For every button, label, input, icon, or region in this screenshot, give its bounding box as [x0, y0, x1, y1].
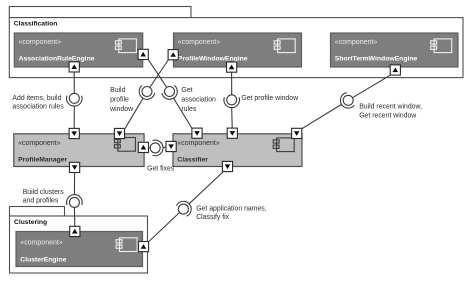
interface Build recent window / Get recent window socket [340, 93, 354, 108]
interface Get application names / Classify fix ball [178, 204, 188, 214]
wire ProfileWindowEngine left port to Build-profile-window ball [150, 60, 168, 87]
wire ProfileWindowEngine bottom port to Get-profile-window ball [231, 72, 233, 94]
svg-text:Classification: Classification [14, 20, 57, 27]
component ProfileWindowEngine icon [274, 39, 295, 53]
svg-text:window: window [109, 106, 133, 113]
svg-text:ProfileWindowEngine: ProfileWindowEngine [178, 56, 248, 63]
wire ProfileManager right port to Get-fixes ball [148, 147, 150, 149]
interface Get fixes socket [153, 140, 163, 156]
component Classifier icon [273, 138, 294, 152]
wire AssociationRuleEngine right port to Get-association-rules ball [148, 60, 166, 88]
component ProfileManager icon [114, 138, 135, 152]
svg-text:Get application names,: Get application names, [196, 205, 267, 212]
component ProfileWindowEngine stereotype label [178, 39, 221, 46]
component AssociationRuleEngine box [14, 33, 142, 67]
interface Get association rules socket [162, 85, 177, 99]
svg-text:Clustering: Clustering [14, 219, 47, 226]
port ShortTermWindowEngine bottom [390, 65, 400, 75]
svg-text:rules: rules [181, 106, 196, 113]
wire Get-association-rules socket to Classifier port [174, 98, 192, 128]
component ClusterEngine icon [116, 238, 137, 252]
interface Build recent window / Get recent window ball [343, 95, 353, 105]
svg-text:ClusterEngine: ClusterEngine [20, 257, 66, 264]
svg-text:«component»: «component» [335, 39, 378, 46]
svg-text:Build: Build [110, 87, 125, 94]
component Classifier box [173, 134, 302, 167]
interface Get fixes ball [150, 143, 160, 153]
package Classification body [9, 18, 463, 78]
interface Get application names / Classify fix socket [176, 201, 191, 216]
label Build profile window [109, 87, 133, 113]
port ClusterEngine right [138, 242, 148, 252]
svg-text:association rules: association rules [12, 104, 64, 111]
component ProfileManager name label [18, 156, 67, 163]
wire Build-profile-window socket to ProfileManager port [125, 98, 143, 128]
interface Build profile window ball [142, 87, 152, 97]
svg-text:AssociationRuleEngine: AssociationRuleEngine [19, 56, 95, 63]
label Build recent window Get recent window [359, 104, 422, 120]
port ProfileManager bottom [70, 162, 80, 172]
port ProfileWindowEngine left [168, 50, 178, 60]
svg-text:Add items, build: Add items, build [12, 95, 61, 102]
label Add items build association rules [12, 95, 64, 111]
component ClusterEngine box [16, 232, 143, 267]
svg-text:«component»: «component» [19, 39, 62, 46]
component ProfileManager box [14, 134, 144, 167]
label Build clusters and profiles [23, 189, 65, 205]
component AssociationRuleEngine icon [115, 39, 136, 53]
svg-text:Build recent window,: Build recent window, [359, 104, 422, 111]
svg-text:association: association [181, 97, 216, 104]
svg-text:Get profile window: Get profile window [241, 95, 298, 102]
port AssociationRuleEngine right [138, 49, 148, 59]
wire Classifier bottom port to Get-application-names socket [189, 172, 223, 204]
svg-text:«component»: «component» [18, 140, 61, 147]
package Clustering body [10, 216, 148, 273]
svg-text:Classify fix: Classify fix [196, 214, 229, 221]
component ProfileWindowEngine name label [178, 56, 248, 63]
component ShortTermWindowEngine icon [431, 39, 452, 53]
svg-text:Get fixes: Get fixes [147, 166, 175, 173]
interface Add items / build association rules socket [67, 96, 83, 106]
package Clustering tab [10, 207, 65, 217]
component ProfileWindowEngine box [174, 33, 302, 67]
port ProfileWindowEngine bottom [227, 62, 237, 72]
interface Get profile window socket [224, 97, 240, 107]
svg-text:Classifier: Classifier [177, 156, 208, 163]
interface Add items / build association rules ball [69, 93, 79, 103]
package Classification tab [9, 7, 191, 18]
label Get profile window [241, 95, 298, 102]
port Classifier left [166, 141, 176, 151]
wire Build-recent-window socket to Classifier corner port [302, 104, 342, 128]
component ClusterEngine stereotype label [20, 240, 63, 247]
port ProfileManager top-left [69, 128, 79, 138]
wire Build-clusters ball to ClusterEngine port [73, 207, 75, 226]
wire Get-fixes socket to Classifier left port [163, 147, 166, 148]
svg-text:Get recent window: Get recent window [359, 112, 416, 119]
wire ShortTermWindowEngine port to Build-recent-window ball [353, 75, 391, 98]
port Classifier top-left [192, 128, 202, 138]
component Classifier name label [177, 156, 208, 163]
label Get association rules [181, 87, 216, 113]
port Classifier top-right [292, 128, 302, 138]
label Get fixes [147, 166, 175, 173]
label Get application names Classify fix [196, 205, 267, 221]
interface Build clusters and profiles ball [69, 197, 79, 207]
component AssociationRuleEngine stereotype label [19, 39, 62, 46]
component AssociationRuleEngine name label [19, 56, 95, 63]
port ClusterEngine top [70, 226, 80, 236]
svg-text:ShortTermWindowEngine: ShortTermWindowEngine [335, 56, 418, 63]
interface Build profile window socket [139, 85, 154, 99]
port ProfileManager top-mid [114, 128, 124, 138]
svg-text:and profiles: and profiles [23, 198, 59, 205]
wire ProfileManager bottom port to Build-clusters socket [73, 173, 75, 195]
svg-text:Get: Get [181, 87, 192, 94]
wire Get-application-names ball to ClusterEngine right port [149, 212, 180, 241]
svg-text:Build clusters: Build clusters [23, 189, 65, 196]
port ProfileManager right [138, 142, 148, 152]
svg-text:profile: profile [110, 97, 129, 104]
wire AssociationRuleEngine port to Add-items interface [73, 72, 75, 93]
svg-text:«component»: «component» [20, 240, 63, 247]
svg-text:«component»: «component» [178, 39, 221, 46]
wire Get-profile-window socket to Classifier port [231, 108, 234, 128]
port AssociationRuleEngine bottom [69, 62, 79, 72]
package Classification name label [14, 20, 57, 27]
component ShortTermWindowEngine box [331, 33, 459, 67]
wire Add-items socket to ProfileManager port [73, 106, 75, 128]
interface Build clusters and profiles socket [67, 195, 83, 205]
port Classifier top-mid [227, 128, 237, 138]
component ProfileManager stereotype label [18, 140, 61, 147]
component ShortTermWindowEngine name label [335, 56, 418, 63]
port Classifier bottom [222, 161, 232, 171]
svg-text:«component»: «component» [177, 140, 220, 147]
svg-text:ProfileManager: ProfileManager [18, 156, 67, 163]
package Clustering name label [14, 219, 47, 226]
component ClusterEngine name label [20, 257, 66, 264]
interface Get profile window ball [227, 95, 237, 105]
interface Get association rules ball [165, 87, 175, 97]
component Classifier stereotype label [177, 140, 220, 147]
component ShortTermWindowEngine stereotype label [335, 39, 378, 46]
